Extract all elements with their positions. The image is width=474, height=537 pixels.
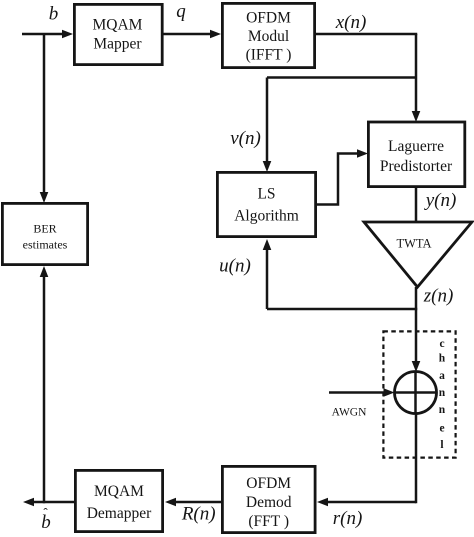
svg-text:TWTA: TWTA	[396, 237, 431, 251]
wire R(n)	[172, 501, 221, 504]
wire LS output to Laguerre input	[317, 154, 360, 205]
wire b input horizontal	[22, 33, 66, 36]
svg-text:MQAM: MQAM	[94, 483, 144, 500]
wire v(n) vertical	[266, 78, 269, 165]
svg-text:MQAM: MQAM	[93, 17, 143, 34]
svg-text:OFDM: OFDM	[246, 10, 291, 27]
svg-text:b: b	[49, 4, 59, 25]
arrowhead AWGN into adder left	[384, 388, 395, 397]
arrowhead u(n) into LS Algorithm bottom	[263, 239, 272, 250]
arrowhead into MQAM Mapper	[62, 30, 73, 39]
wire u(n) feedback vertical	[266, 248, 269, 309]
BER estimates box U3	[2, 203, 87, 264]
arrowhead q into OFDM Modul	[210, 30, 221, 39]
svg-text:OFDM: OFDM	[246, 475, 291, 492]
svg-text:BER: BER	[33, 222, 56, 236]
wire AWGN input	[329, 391, 387, 394]
svg-text:x(n): x(n)	[335, 12, 367, 33]
svg-text:e: e	[439, 423, 444, 435]
arrowhead r(n) into OFDM Demod right	[317, 498, 328, 507]
MQAM Demapper box U8	[75, 470, 162, 531]
svg-text:n: n	[439, 387, 446, 399]
OFDM Demod (FFT) box U7	[222, 466, 315, 532]
svg-text:Modul: Modul	[248, 28, 289, 45]
wire x(n) vertical down to Laguerre	[415, 34, 418, 114]
wire z(n) vertical from TWTA	[415, 287, 418, 364]
svg-text:a: a	[439, 370, 445, 382]
svg-text:Predistorter: Predistorter	[380, 158, 453, 175]
svg-text:R(n): R(n)	[181, 504, 216, 525]
svg-text:z(n): z(n)	[423, 286, 454, 307]
svg-text:ˆ: ˆ	[43, 505, 48, 520]
TWTA amplifier triangle U6	[364, 222, 472, 287]
adder summing junction circle	[395, 372, 437, 414]
adder plus horizontal	[395, 391, 437, 394]
svg-text:AWGN: AWGN	[332, 407, 368, 419]
svg-text:u(n): u(n)	[219, 256, 251, 277]
junction b to BER vertical wire	[43, 34, 46, 195]
Laguerre Predistorter box U5	[368, 122, 464, 187]
svg-text:n: n	[439, 404, 446, 416]
svg-text:LS: LS	[257, 186, 275, 203]
arrowhead bhat output left	[23, 498, 34, 507]
svg-text:Demapper: Demapper	[87, 505, 152, 522]
svg-text:estimates: estimates	[23, 238, 68, 252]
wire x(n) horizontal	[315, 33, 417, 36]
svg-text:l: l	[440, 439, 443, 451]
wire y(n)	[415, 186, 418, 222]
arrowhead into Laguerre Predistorter left	[357, 149, 368, 158]
arrowhead v(n) into LS Algorithm top	[263, 161, 272, 172]
wire bhat output horizontal	[30, 501, 74, 504]
wire q	[161, 33, 214, 36]
svg-text:c: c	[439, 338, 444, 350]
svg-text:v(n): v(n)	[230, 128, 261, 149]
svg-text:Laguerre: Laguerre	[388, 138, 444, 155]
adder plus vertical	[414, 372, 417, 413]
svg-text:h: h	[439, 353, 446, 365]
LS Algorithm box U4	[217, 172, 315, 236]
arrowhead z(n) into adder top	[412, 361, 421, 372]
svg-text:(IFFT ): (IFFT )	[246, 47, 292, 64]
wire r(n) horizontal	[324, 501, 416, 504]
channel dashed box	[383, 331, 455, 457]
wire r(n) vertical from adder	[415, 413, 418, 503]
svg-text:Algorithm: Algorithm	[234, 208, 299, 225]
svg-text:y(n): y(n)	[424, 190, 457, 211]
svg-text:Mapper: Mapper	[93, 36, 142, 53]
svg-text:r(n): r(n)	[333, 508, 363, 529]
wire BER bottom vertical to bhat line	[43, 277, 46, 503]
arrowhead into BER estimates bottom	[40, 266, 49, 277]
arrowhead into Laguerre Predistorter top	[412, 111, 421, 122]
wire branch x(n) to v(n) horizontal	[267, 76, 416, 79]
MQAM Mapper box U1	[74, 4, 162, 64]
wire u(n) feedback horizontal	[267, 308, 417, 311]
arrowhead R(n) into MQAM Demapper right	[165, 498, 176, 507]
svg-text:Demod: Demod	[246, 494, 292, 511]
svg-text:q: q	[176, 1, 186, 22]
svg-text:(FFT ): (FFT )	[248, 513, 289, 530]
OFDM Modul (IFFT) box U2	[222, 3, 314, 67]
arrowhead into BER estimates top	[40, 192, 49, 203]
